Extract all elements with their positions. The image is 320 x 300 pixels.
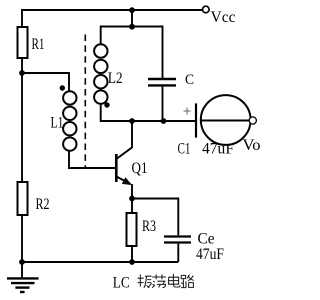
inductor L2 xyxy=(94,44,107,104)
wire bottom rail xyxy=(22,261,178,263)
wire collector xyxy=(131,121,133,148)
svg-text:Q1: Q1 xyxy=(132,160,148,177)
output terminal xyxy=(249,117,256,124)
wire L2 bottom + mid rail xyxy=(101,104,196,121)
wire left rail top (to R1) xyxy=(21,9,23,27)
wire Ce bottom xyxy=(177,244,179,262)
polarity dot L2 xyxy=(104,102,109,107)
svg-text:C1: C1 xyxy=(178,141,191,158)
resistor R3 xyxy=(127,213,137,246)
svg-text:R2: R2 xyxy=(36,196,50,213)
wire emitter rail to Ce xyxy=(132,199,178,236)
capacitor C xyxy=(148,79,176,85)
svg-text:C: C xyxy=(185,72,194,88)
wire emitter xyxy=(131,184,133,199)
svg-text:R1: R1 xyxy=(32,36,45,53)
svg-text:Vcc: Vcc xyxy=(211,9,236,26)
inductor L1 xyxy=(63,91,76,151)
wire junction to L1 top xyxy=(22,73,69,91)
wire L2 top to C xyxy=(101,27,163,79)
caption 振 xyxy=(138,275,152,288)
svg-text:L2: L2 xyxy=(108,70,123,87)
output transducer diameter line xyxy=(201,120,251,122)
ground xyxy=(7,262,39,292)
svg-text:Ce: Ce xyxy=(198,231,215,248)
power terminal Vcc xyxy=(203,6,210,13)
output transducer circle xyxy=(201,95,251,145)
wire left rail mid xyxy=(21,58,23,182)
wire C bottom xyxy=(162,87,164,121)
node emitter junction xyxy=(129,196,135,202)
wire top junction stub xyxy=(131,10,133,27)
transistor Q1 xyxy=(116,148,132,185)
capacitor Ce xyxy=(164,237,191,243)
node collector junction xyxy=(129,118,135,124)
wire emitter to R3 xyxy=(131,199,133,214)
svg-text:L1: L1 xyxy=(51,115,64,132)
caption 路 xyxy=(181,275,194,288)
caption 电 xyxy=(169,274,180,287)
node C junction xyxy=(161,118,167,124)
svg-text:Vo: Vo xyxy=(243,137,261,154)
node R3 bottom junction xyxy=(129,259,135,265)
svg-text:R3: R3 xyxy=(142,218,156,235)
node bias divider junction xyxy=(19,70,25,76)
capacitor C1 plate xyxy=(195,103,197,137)
node ground junction xyxy=(19,259,25,265)
wire left rail bottom xyxy=(21,215,23,262)
resistor R2 xyxy=(18,182,28,215)
wire R3 bottom xyxy=(131,246,133,262)
polarity dot L1 xyxy=(60,85,65,90)
svg-text:47uF: 47uF xyxy=(196,246,224,263)
resistor R1 xyxy=(18,27,28,58)
wire L1 bottom to base xyxy=(69,151,116,168)
transformer core dashed line xyxy=(84,35,86,169)
caption 荡 xyxy=(152,274,166,287)
plus sign C1 xyxy=(184,108,191,115)
node second rail junction xyxy=(129,24,135,30)
svg-text:LC: LC xyxy=(113,275,130,292)
node top rail junction xyxy=(129,7,135,13)
wire top rail Vcc xyxy=(21,9,202,11)
